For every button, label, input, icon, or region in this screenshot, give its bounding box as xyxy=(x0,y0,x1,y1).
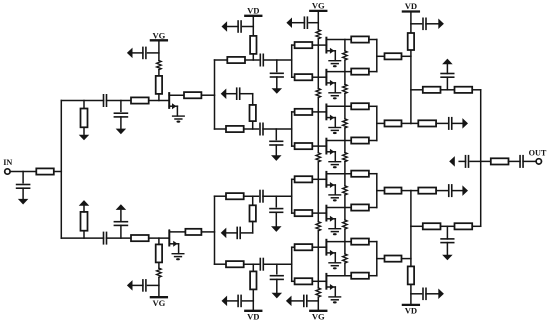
VD supply terminal (top right) xyxy=(403,1,419,12)
transmission line TL5 QA drain xyxy=(184,92,201,98)
capacitor C14 stub termination xyxy=(237,227,240,238)
capacitor C27 termination bottom xyxy=(449,185,452,196)
svg-text:VG: VG xyxy=(152,298,165,308)
resistor R11 drain ladder xyxy=(343,153,348,162)
wire gate M6 xyxy=(318,212,326,214)
wire top branch xyxy=(61,100,103,102)
wire branch2 xyxy=(215,128,227,130)
ground arrow below C19 xyxy=(272,293,283,299)
wire C27 to ground arrow xyxy=(452,190,463,192)
ground arrow below C13 xyxy=(271,155,282,161)
output terminal xyxy=(536,159,541,164)
ground arrow below C1 xyxy=(18,199,29,205)
wire termination top xyxy=(411,122,418,124)
capacitor C15 series branch3 xyxy=(260,191,263,202)
wire QB drain xyxy=(169,230,185,232)
transistor M5 xyxy=(326,172,340,202)
capacitor C4 VG decoupling (top left) xyxy=(132,47,159,58)
ground arrow above C6 xyxy=(116,204,127,210)
wire TL10 to VD node xyxy=(245,59,259,61)
wire TL9 to splitter 2b xyxy=(201,231,214,233)
ground arrow below C26 xyxy=(442,255,453,261)
VG supply terminal (bottom left) xyxy=(151,297,167,308)
wire drain M5 xyxy=(326,173,351,175)
wire C12 to node2 xyxy=(263,128,292,130)
ground arrow left of C8 xyxy=(222,21,228,32)
VD right top wire xyxy=(410,12,412,124)
transmission line TL20 gate feed M5 xyxy=(292,176,319,182)
VG gate bus wire xyxy=(317,11,319,311)
wire TL15 to C11 xyxy=(241,94,253,105)
wire bottom branch xyxy=(61,237,103,239)
wire exit top a xyxy=(411,89,423,91)
capacitor C24 termination top xyxy=(449,118,452,129)
wire TL4 to gate node xyxy=(158,94,160,101)
VG supply terminal (top center) xyxy=(310,1,326,11)
ground arrow left of C4 xyxy=(127,48,133,59)
VD supply terminal (bottom left feed) xyxy=(245,311,261,322)
wire branch4 xyxy=(215,263,227,265)
wire C11 to ground arrow xyxy=(226,93,237,95)
wire TL29 to combiner xyxy=(369,140,377,142)
wire termination bottom xyxy=(411,190,418,192)
capacitor C5 series (bottom branch) xyxy=(104,232,107,243)
output combiner vertical wire xyxy=(480,90,482,227)
transistor M4 xyxy=(326,139,340,169)
wire TL32 to combiner xyxy=(369,241,377,243)
transmission line TL3 series (top) xyxy=(131,97,149,103)
wire drain M8 xyxy=(326,275,351,277)
capacitor C22 VD decoupling (top right) xyxy=(411,18,439,29)
wire drain M1 xyxy=(326,39,351,41)
transmission line TL32 drain M7 xyxy=(351,239,369,245)
resistor R12 drain ladder xyxy=(343,186,348,195)
transmission line TL28 drain M3 xyxy=(351,103,369,109)
ground arrow below C10 xyxy=(272,88,283,94)
ground arrow above C23 xyxy=(442,59,453,65)
wire TL5 to splitter 2a xyxy=(201,94,214,96)
ground arrow output left xyxy=(449,156,455,167)
wire TL27 to combiner xyxy=(369,71,377,73)
capacitor C10 shunt branch1 xyxy=(271,60,284,88)
splitter 2a vertical wire xyxy=(214,60,216,129)
ground arrow termination bottom xyxy=(462,185,468,196)
capacitor C20 VG decoupling (top center) xyxy=(291,17,318,28)
svg-text:OUT: OUT xyxy=(529,149,547,158)
resistor R6 gate bus xyxy=(316,222,321,231)
svg-text:VD: VD xyxy=(405,306,417,316)
svg-text:VG: VG xyxy=(152,30,165,40)
transmission line TL34 combiner A tap xyxy=(377,53,411,59)
resistor R8 drain ladder xyxy=(343,51,348,60)
ground arrow below C16 xyxy=(271,226,282,232)
transmission line TL45 termination bottom xyxy=(418,188,436,194)
splitter 3b vertical wire xyxy=(291,112,293,146)
wire C2 to TL3 xyxy=(107,100,132,102)
wire TL8 to gate node xyxy=(158,238,160,244)
capacitor C13 shunt branch2 xyxy=(270,129,283,155)
transistor QA (top driver) xyxy=(169,93,184,123)
transistor M1 xyxy=(326,38,340,68)
transmission line TL22 branch4 xyxy=(226,261,244,267)
resistor R14 drain ladder xyxy=(343,254,348,263)
transmission line TL42 VD feed (bottom right) xyxy=(408,266,414,284)
transmission line TL41 termination top xyxy=(418,120,436,126)
combiner D vertical wire xyxy=(376,242,378,276)
ground arrow left of C21 xyxy=(286,296,292,307)
wire TL45 to C27 xyxy=(436,190,449,192)
ground arrow right of C25 xyxy=(438,289,444,300)
transmission line TL15 stub branch2 xyxy=(250,105,256,121)
transmission line TL18 branch3 xyxy=(226,193,244,199)
resistor R7 gate bus xyxy=(316,288,321,297)
wire gate M8 xyxy=(318,280,326,282)
transmission line TL27 drain M2 xyxy=(351,69,369,75)
wire exit bottom b xyxy=(441,225,455,227)
capacitor C12 series branch2 xyxy=(260,123,263,134)
wire VG down xyxy=(158,40,160,60)
output label OUT xyxy=(529,149,547,158)
wire TL18 to stub node xyxy=(244,195,259,197)
svg-text:VG: VG xyxy=(312,1,325,11)
VG supply terminal (top left) xyxy=(151,30,167,40)
transmission line TL9 QB drain xyxy=(185,229,201,235)
stub node wire up (branch2) xyxy=(252,121,254,129)
wire exit top b xyxy=(441,89,455,91)
wire gate M2 xyxy=(318,76,326,78)
ground arrow below C3 xyxy=(116,129,127,135)
VD supply terminal (bottom right) xyxy=(403,305,419,316)
resistor R5 gate bus xyxy=(316,153,321,162)
capacitor C7 VG decoupling (bottom left) xyxy=(132,280,159,291)
wire gate M7 xyxy=(318,246,326,248)
transmission line TL8 VG feed (bottom left) xyxy=(156,244,162,262)
ground arrow left of C20 xyxy=(286,17,292,28)
wire QA drain xyxy=(169,93,184,95)
shunt stub TL2 with ground (top) xyxy=(79,101,90,141)
ground arrow right of C22 xyxy=(438,19,444,30)
input terminal xyxy=(5,169,10,174)
capacitor C28 output left termination xyxy=(466,156,469,167)
drain ladder bus wire xyxy=(344,40,346,276)
wire gate M1 xyxy=(318,44,326,46)
transmission line TL26 drain M1 xyxy=(351,36,369,42)
transmission line TL31 drain M6 xyxy=(351,204,369,210)
transistor M6 xyxy=(326,206,340,236)
capacitor C19 shunt branch4 xyxy=(271,264,284,292)
wire branch1 xyxy=(215,59,228,61)
transmission line TL10 branch1 xyxy=(227,57,245,63)
combiner B vertical wire xyxy=(376,106,378,140)
wire TL22 to VD node xyxy=(244,263,259,265)
resistor R2 VG bias (bottom left) xyxy=(157,268,162,277)
transmission line TL23 VD feed (bottom) xyxy=(250,271,256,289)
wire output node left xyxy=(470,160,481,162)
wire TL41 to C24 xyxy=(436,122,449,124)
VD right bottom wire xyxy=(410,191,412,305)
capacitor C17 VD decoupling (bottom) xyxy=(227,295,254,306)
resistor R9 drain ladder xyxy=(343,84,348,93)
wire gate M3 xyxy=(318,111,326,113)
ground arrow branch2 stub xyxy=(221,88,227,99)
transmission line TL43 exit bottom xyxy=(423,223,441,229)
combiner C vertical wire xyxy=(376,174,378,208)
resistor R10 drain ladder xyxy=(343,119,348,128)
capacitor C8 VD decoupling xyxy=(227,21,254,32)
transistor M7 xyxy=(326,240,340,270)
ground arrow branch3 stub xyxy=(221,228,227,239)
wire exit bottom a xyxy=(411,225,423,227)
capacitor C21 VG decoupling (bottom center) xyxy=(291,295,318,306)
wire C14 to ground arrow xyxy=(226,232,238,234)
svg-text:IN: IN xyxy=(3,158,12,167)
VG supply terminal (bottom center) xyxy=(310,311,326,322)
resistor R1 VG bias (top left) xyxy=(157,61,162,70)
transmission line TL24 gate feed M7 xyxy=(292,244,319,250)
wire drain M3 xyxy=(326,105,351,107)
capacitor C26 shunt exit bottom xyxy=(441,226,454,254)
wire TL30 to combiner xyxy=(369,173,377,175)
capacitor C6 shunt (bottom branch) xyxy=(114,210,127,238)
transmission line TL30 drain M5 xyxy=(351,171,369,177)
transmission line TL40 exit top xyxy=(455,87,473,93)
transmission line TL16 gate feed M3 xyxy=(292,109,319,115)
wire VD down to branch1 xyxy=(252,16,254,60)
wire C18 to node4 xyxy=(263,263,291,265)
svg-text:VD: VD xyxy=(405,1,417,11)
wire C9 to node1 xyxy=(263,59,291,61)
wire exit top c xyxy=(472,89,481,91)
transmission line TL4 VG feed (top left) xyxy=(156,76,162,94)
splitter node vertical wire xyxy=(60,101,62,239)
wire R1 to TL4 xyxy=(158,70,160,76)
capacitor C23 shunt exit top xyxy=(441,65,454,90)
transistor QB (bottom driver) xyxy=(169,231,184,261)
wire VG up xyxy=(158,277,160,297)
ground arrow left of C17 xyxy=(222,296,228,307)
transmission line TL19 stub branch3 xyxy=(250,205,256,221)
wire C5 to TL7 xyxy=(107,237,132,239)
capacitor C29 output DC block xyxy=(520,156,523,167)
transmission line TL37 combiner D tap xyxy=(377,256,411,262)
wire TL1 to splitter xyxy=(54,171,62,173)
wire VD up to branch4 xyxy=(252,264,254,311)
capacitor C9 series branch1 xyxy=(260,54,263,65)
capacitor C16 shunt branch3 xyxy=(270,196,283,226)
wire TL33 to combiner xyxy=(369,275,377,277)
wire TL14 to stub node xyxy=(244,128,259,130)
transmission line TL39 exit top xyxy=(423,87,441,93)
capacitor C25 VD decoupling (bottom right) xyxy=(411,288,439,299)
transmission line TL14 branch2 xyxy=(226,126,244,132)
capacitor C18 series branch4 xyxy=(260,259,263,270)
wire drain M2 xyxy=(326,71,351,73)
stub node wire down (branch3) xyxy=(252,196,254,205)
wire output node right xyxy=(481,160,491,162)
transmission line TL35 combiner B tap xyxy=(377,120,411,126)
svg-text:VG: VG xyxy=(312,312,325,322)
wire TL31 to combiner xyxy=(369,207,377,209)
wire gate M5 xyxy=(318,178,326,180)
wire branch3 xyxy=(215,195,227,197)
transmission line TL46 output xyxy=(491,158,509,164)
capacitor C3 shunt (top branch) xyxy=(114,101,127,129)
capacitor C11 stub termination xyxy=(237,88,240,99)
wire TL7 to QB gate xyxy=(149,237,170,239)
wire C15 to node3 xyxy=(263,195,292,197)
shunt stub TL6 with ground (bottom) xyxy=(79,200,90,238)
transistor M3 xyxy=(326,105,340,135)
transmission line TL25 gate feed M8 xyxy=(292,278,319,284)
svg-text:VD: VD xyxy=(247,312,259,322)
transistor M8 xyxy=(326,274,340,304)
wire drain M7 xyxy=(326,241,351,243)
resistor R4 gate bus xyxy=(316,88,321,97)
transmission line TL13 gate feed M2 xyxy=(292,74,319,80)
wire TL46 to C29 xyxy=(509,160,521,162)
transmission line TL17 gate feed M4 xyxy=(292,143,319,149)
transmission line TL7 series (bottom) xyxy=(131,235,149,241)
capacitor C1 shunt at input xyxy=(17,172,30,199)
transmission line TL44 exit bottom xyxy=(455,223,473,229)
transmission line TL1 input series xyxy=(36,168,54,174)
wire gate M4 xyxy=(318,145,326,147)
VD supply terminal (top left feed) xyxy=(245,6,261,16)
splitter 3d vertical wire xyxy=(291,247,293,281)
wire C24 to ground arrow xyxy=(452,122,463,124)
splitter 3a vertical wire xyxy=(291,45,293,77)
transmission line TL12 gate feed M1 xyxy=(292,42,319,48)
resistor R13 drain ladder xyxy=(343,220,348,229)
transmission line TL36 combiner C tap xyxy=(377,188,411,194)
wire input to C1 node xyxy=(10,171,36,173)
wire R2 to TL8 xyxy=(158,262,160,268)
capacitor C2 series (top branch) xyxy=(104,95,107,106)
input label IN xyxy=(3,158,12,167)
transistor M2 xyxy=(326,70,340,100)
wire TL19 to C14 xyxy=(242,222,253,233)
resistor R3 gate bus xyxy=(316,30,321,39)
wire TL26 to combiner xyxy=(369,39,377,41)
transmission line TL33 drain M8 xyxy=(351,273,369,279)
wire TL3 to Q1 gate xyxy=(149,100,170,102)
ground arrow left of C7 xyxy=(127,280,133,291)
wire drain M4 xyxy=(326,140,351,142)
wire drain M6 xyxy=(326,207,351,209)
wire C28 to ground arrow xyxy=(459,160,465,162)
transmission line TL38 VD feed (top right) xyxy=(408,33,414,50)
transmission line TL29 drain M4 xyxy=(351,137,369,143)
svg-text:VD: VD xyxy=(247,6,259,16)
wire exit bottom c xyxy=(472,225,481,227)
ground arrow termination top xyxy=(462,118,468,128)
wire TL28 to combiner xyxy=(369,105,377,107)
transmission line TL11 VD feed xyxy=(250,36,256,54)
splitter 2b vertical wire xyxy=(214,196,216,264)
transmission line TL21 gate feed M6 xyxy=(292,210,319,216)
combiner A vertical wire xyxy=(376,40,378,72)
wire C29 to OUT terminal xyxy=(523,160,536,162)
splitter 3c vertical wire xyxy=(291,179,293,213)
